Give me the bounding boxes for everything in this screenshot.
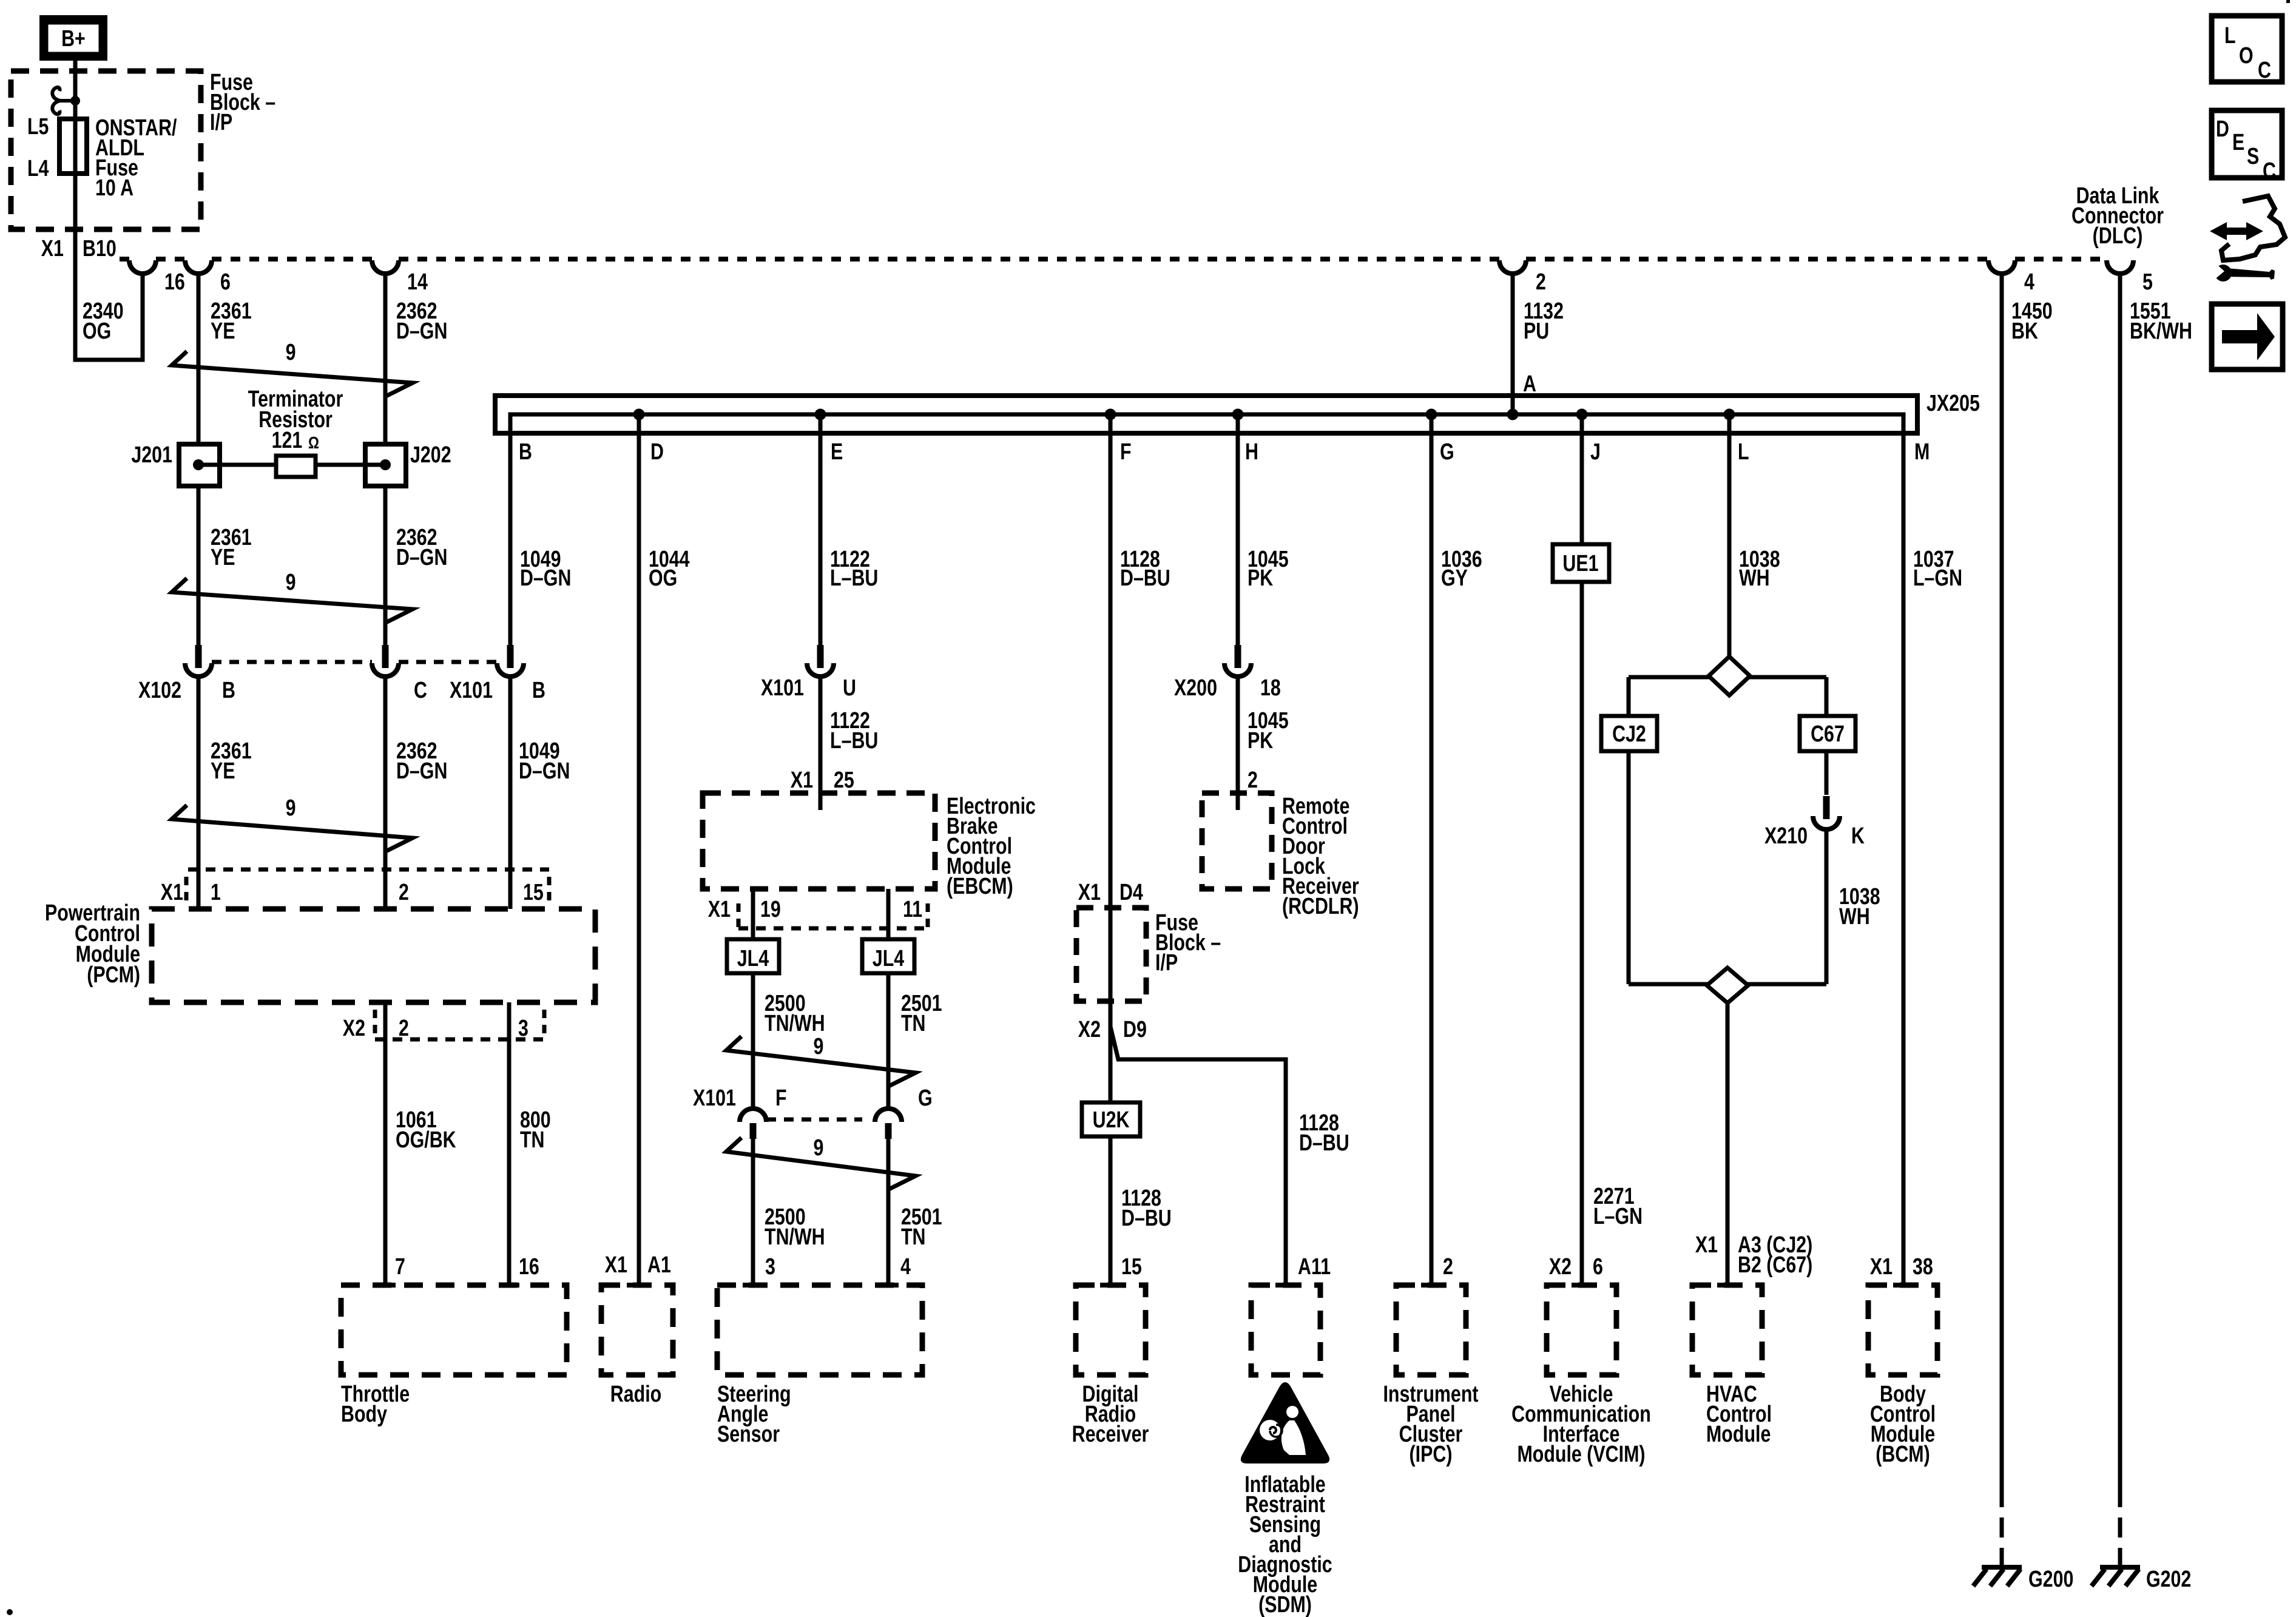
svg-text:X101: X101 (761, 675, 804, 701)
svg-text:2: 2 (399, 880, 409, 905)
svg-text:L5: L5 (27, 114, 49, 140)
svg-text:D–BU: D–BU (1120, 565, 1170, 591)
svg-text:BK/WH: BK/WH (2130, 319, 2192, 344)
svg-text:16: 16 (519, 1254, 539, 1280)
svg-text:YE: YE (211, 545, 235, 570)
svg-text:1: 1 (211, 880, 221, 905)
svg-text:YE: YE (211, 758, 235, 784)
svg-text:(EBCM): (EBCM) (947, 874, 1013, 899)
svg-text:X102: X102 (138, 678, 181, 703)
svg-text:J201: J201 (131, 442, 172, 468)
svg-text:18: 18 (1260, 675, 1281, 701)
svg-text:TN/WH: TN/WH (765, 1224, 825, 1250)
svg-text:D4: D4 (1119, 880, 1143, 905)
svg-text:D–GN: D–GN (396, 319, 447, 344)
svg-text:L: L (2224, 23, 2236, 49)
svg-text:19: 19 (760, 897, 781, 922)
svg-text:B: B (222, 678, 235, 703)
svg-text:X1: X1 (161, 880, 183, 905)
svg-text:X1: X1 (708, 897, 731, 922)
svg-text:25: 25 (834, 768, 854, 793)
svg-text:J: J (1590, 439, 1601, 465)
svg-text:L: L (1738, 439, 1749, 465)
svg-text:YE: YE (211, 319, 235, 344)
svg-text:A11: A11 (1298, 1254, 1331, 1280)
svg-text:X1: X1 (791, 768, 813, 793)
svg-text:Ω: Ω (308, 434, 319, 453)
svg-text:PK: PK (1248, 565, 1273, 591)
svg-text:15: 15 (523, 880, 544, 905)
svg-text:A: A (1523, 371, 1536, 397)
svg-text:WH: WH (1739, 565, 1770, 591)
svg-text:Body: Body (341, 1402, 387, 1427)
svg-text:TN/WH: TN/WH (765, 1011, 825, 1036)
svg-text:7: 7 (395, 1254, 405, 1280)
svg-text:C: C (2263, 158, 2276, 184)
svg-text:(IPC): (IPC) (1410, 1442, 1453, 1467)
svg-text:D–BU: D–BU (1121, 1206, 1172, 1231)
svg-text:X1: X1 (1078, 880, 1101, 905)
svg-text:2: 2 (1248, 768, 1258, 793)
svg-text:OG/BK: OG/BK (396, 1127, 456, 1153)
svg-text:D–GN: D–GN (396, 545, 447, 570)
svg-text:L4: L4 (27, 156, 49, 181)
svg-text:M: M (1914, 439, 1930, 465)
svg-text:121: 121 (272, 428, 303, 453)
svg-text:J202: J202 (410, 442, 451, 468)
svg-text:D: D (650, 439, 664, 465)
svg-text:D9: D9 (1123, 1017, 1147, 1042)
svg-text:I/P: I/P (210, 110, 232, 135)
svg-text:9: 9 (814, 1034, 824, 1059)
svg-text:L–GN: L–GN (1913, 565, 1962, 591)
svg-text:(PCM): (PCM) (87, 962, 140, 988)
svg-text:U2K: U2K (1093, 1107, 1130, 1133)
svg-text:L–BU: L–BU (830, 728, 878, 754)
svg-text:O: O (2239, 43, 2254, 69)
svg-text:Sensor: Sensor (717, 1422, 780, 1447)
svg-text:PU: PU (1524, 319, 1549, 344)
svg-text:11: 11 (903, 897, 922, 922)
svg-text:OG: OG (649, 565, 677, 591)
svg-text:WH: WH (1839, 904, 1870, 930)
svg-text:5: 5 (2142, 269, 2153, 295)
svg-text:3: 3 (765, 1254, 775, 1280)
svg-text:X2: X2 (343, 1016, 365, 1041)
svg-text:Radio: Radio (610, 1382, 661, 1407)
svg-text:B2 (C67): B2 (C67) (1738, 1252, 1812, 1278)
svg-text:9: 9 (286, 570, 296, 595)
svg-text:L–GN: L–GN (1593, 1204, 1643, 1229)
svg-text:B: B (519, 439, 532, 465)
svg-text:6: 6 (1593, 1254, 1603, 1280)
svg-text:D–GN: D–GN (519, 758, 570, 784)
svg-text:G: G (1440, 439, 1454, 465)
svg-text:9: 9 (286, 340, 296, 365)
svg-text:I/P: I/P (1155, 950, 1178, 976)
svg-text:PK: PK (1248, 728, 1273, 754)
svg-text:X1: X1 (41, 236, 64, 262)
svg-text:2: 2 (1443, 1254, 1453, 1280)
svg-text:E: E (831, 439, 843, 465)
svg-text:(SDM): (SDM) (1258, 1592, 1312, 1617)
svg-text:(BCM): (BCM) (1876, 1442, 1930, 1467)
svg-text:H: H (1245, 439, 1258, 465)
svg-text:U: U (843, 675, 856, 701)
svg-text:15: 15 (1121, 1254, 1142, 1280)
svg-text:G202: G202 (2146, 1567, 2191, 1592)
svg-text:X1: X1 (1870, 1254, 1893, 1280)
svg-text:9: 9 (286, 795, 296, 821)
svg-text:2: 2 (399, 1016, 409, 1041)
svg-text:K: K (1851, 823, 1865, 849)
svg-text:OG: OG (83, 319, 111, 344)
svg-text:G200: G200 (2028, 1567, 2073, 1592)
svg-text:2: 2 (1536, 269, 1546, 295)
svg-text:D–BU: D–BU (1299, 1130, 1349, 1156)
svg-text:A1: A1 (647, 1252, 671, 1278)
svg-text:X2: X2 (1549, 1254, 1572, 1280)
svg-text:JL4: JL4 (873, 946, 904, 971)
svg-text:D–GN: D–GN (396, 758, 447, 784)
svg-text:10 A: 10 A (95, 175, 133, 201)
svg-text:C: C (2258, 58, 2271, 83)
svg-text:E: E (2232, 130, 2244, 155)
svg-text:X2: X2 (1078, 1017, 1101, 1042)
svg-text:6: 6 (220, 269, 231, 295)
svg-text:16: 16 (164, 269, 185, 295)
svg-text:B10: B10 (83, 236, 116, 262)
svg-text:CJ2: CJ2 (1612, 721, 1646, 747)
svg-text:X1: X1 (605, 1252, 627, 1278)
svg-text:C: C (414, 678, 427, 703)
svg-text:Receiver: Receiver (1072, 1422, 1149, 1447)
svg-text:X101: X101 (693, 1085, 736, 1111)
svg-text:Module (VCIM): Module (VCIM) (1517, 1442, 1645, 1467)
svg-text:L–BU: L–BU (830, 565, 878, 591)
svg-text:X200: X200 (1174, 675, 1217, 701)
svg-text:C67: C67 (1811, 721, 1845, 747)
svg-text:38: 38 (1913, 1254, 1933, 1280)
svg-text:X210: X210 (1764, 823, 1808, 849)
svg-text:BK: BK (2011, 319, 2038, 344)
svg-text:(RCDLR): (RCDLR) (1282, 894, 1359, 919)
svg-text:9: 9 (814, 1135, 824, 1161)
svg-text:3: 3 (518, 1016, 528, 1041)
svg-text:JL4: JL4 (737, 946, 769, 971)
svg-text:4: 4 (900, 1254, 911, 1280)
svg-text:14: 14 (407, 269, 428, 295)
svg-text:B: B (532, 678, 545, 703)
svg-text:TN: TN (901, 1224, 926, 1250)
svg-text:X101: X101 (450, 678, 493, 703)
svg-text:JX205: JX205 (1926, 391, 1980, 416)
svg-text:S: S (2247, 144, 2259, 169)
svg-text:B+: B+ (61, 26, 86, 52)
svg-text:TN: TN (901, 1011, 926, 1036)
svg-text:Module: Module (1706, 1422, 1771, 1447)
svg-text:F: F (1120, 439, 1132, 465)
svg-text:D: D (2216, 116, 2229, 142)
svg-text:GY: GY (1441, 565, 1468, 591)
svg-text:D–GN: D–GN (520, 565, 571, 591)
svg-text:TN: TN (520, 1127, 545, 1153)
svg-text:F: F (775, 1085, 787, 1111)
svg-text:4: 4 (2024, 269, 2034, 295)
svg-text:UE1: UE1 (1562, 551, 1598, 576)
svg-text:X1: X1 (1695, 1232, 1718, 1258)
svg-text:G: G (918, 1085, 933, 1111)
svg-text:(DLC): (DLC) (2093, 223, 2143, 249)
